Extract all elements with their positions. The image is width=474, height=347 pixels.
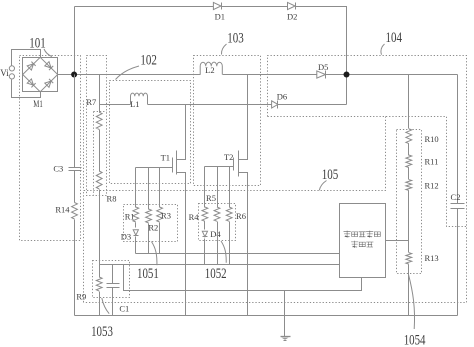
wire D1 to D2 xyxy=(222,6,288,8)
main wire node to L2 xyxy=(75,74,201,76)
resistor R2 with wires xyxy=(148,168,150,210)
dashed box around R7/R8 (inner) xyxy=(94,112,107,196)
resistor R1 with top wire xyxy=(135,168,137,208)
resistor R11 xyxy=(406,155,412,168)
wire L1 tap xyxy=(100,104,131,106)
svg-text:D5: D5 xyxy=(318,62,328,72)
resistor R14 xyxy=(72,203,78,220)
resistor R8 xyxy=(96,171,102,189)
resistor R5 with wires xyxy=(217,167,219,208)
svg-text:D3: D3 xyxy=(121,232,131,242)
inductor L1 xyxy=(131,93,148,104)
svg-text:R4: R4 xyxy=(189,212,200,222)
diode D4 xyxy=(204,222,206,230)
wire D3 to pin wire xyxy=(135,237,137,254)
dashed divider inside box 104 (C2 output cell) xyxy=(268,117,467,227)
junction dot at output node xyxy=(344,72,350,78)
chip input wire from R7/R8 divider xyxy=(100,190,340,265)
bridge diode NE xyxy=(45,62,51,68)
svg-text:R10: R10 xyxy=(425,134,439,144)
svg-text:R12: R12 xyxy=(425,181,439,191)
chip input wire from D3 node xyxy=(136,253,340,255)
output rail right side top xyxy=(457,75,459,204)
wire bridge output to node xyxy=(58,74,75,76)
wire D2 to output node xyxy=(296,7,347,105)
chip output wire to divider xyxy=(386,240,409,242)
T2 gate wire xyxy=(205,166,234,168)
svg-text:C1: C1 xyxy=(119,304,129,314)
resistor R4 with top wire xyxy=(204,167,206,208)
transistor T2 channel bar xyxy=(238,151,240,177)
ground stem xyxy=(284,291,286,337)
source Vi terminals xyxy=(9,66,14,71)
wire R12 to chip node xyxy=(408,191,410,241)
dashed box 1051 (T1 gate network) xyxy=(124,205,178,242)
T2 source connection down to rail xyxy=(239,173,248,316)
svg-text:R13: R13 xyxy=(425,253,439,263)
wire node up to bypass rail xyxy=(74,7,76,75)
wire D5 to output corner xyxy=(326,74,458,76)
wire L1 to D6 node xyxy=(148,104,272,106)
resistor R6 with wires xyxy=(229,167,231,208)
wire R8 down to pin wire xyxy=(99,190,101,265)
transistor T1 channel bar xyxy=(176,151,178,175)
wire R7 to R8 xyxy=(99,130,101,172)
svg-text:1051: 1051 xyxy=(137,266,159,282)
dashed box around R7/R8 sense divider (outer) xyxy=(87,56,107,196)
svg-text:Vi: Vi xyxy=(0,68,9,78)
wire divider node down to chip bottom wire xyxy=(124,265,362,291)
wire R14 to bottom rail xyxy=(74,220,76,316)
diode D3 xyxy=(135,223,137,228)
output rail right side bottom xyxy=(457,209,459,316)
svg-text:M1: M1 xyxy=(33,100,43,110)
svg-text:T2: T2 xyxy=(224,152,233,162)
svg-text:D4: D4 xyxy=(210,229,221,239)
dashed box 1053 (R9/C1 network) xyxy=(93,261,130,298)
transistor T1 gate bar xyxy=(172,158,174,173)
bridge diode NW xyxy=(27,64,33,70)
svg-text:D2: D2 xyxy=(287,12,297,22)
wire D4 to pin wire xyxy=(204,239,206,265)
wire D6 to output node xyxy=(278,104,347,106)
svg-text:R8: R8 xyxy=(107,194,117,204)
wire main rail down to R10 xyxy=(408,75,410,129)
resistor R12 xyxy=(406,180,412,191)
wire R11 to R12 xyxy=(408,168,410,180)
resistor R9 xyxy=(99,265,101,278)
svg-text:R11: R11 xyxy=(425,157,439,167)
wire Vi top to bridge AC1 xyxy=(12,50,41,66)
capacitor C2 xyxy=(451,203,465,205)
wire C3 to R14 xyxy=(74,171,76,203)
svg-text:101: 101 xyxy=(29,35,46,51)
left rail node down to C3 xyxy=(74,75,76,168)
T1 source connection down to rail xyxy=(177,173,186,316)
capacitor C3 xyxy=(69,167,82,169)
dashed box 102 (first boost leg) xyxy=(110,81,191,184)
resistor R10 xyxy=(406,129,412,144)
T1 gate wire xyxy=(136,167,173,169)
dashed box 1054 inner (feedback divider) xyxy=(397,130,422,274)
svg-text:R7: R7 xyxy=(86,97,96,107)
svg-text:R5: R5 xyxy=(206,193,216,203)
svg-text:105: 105 xyxy=(322,167,339,183)
bridge diode SE xyxy=(45,81,51,87)
svg-text:104: 104 xyxy=(386,30,403,46)
svg-text:L1: L1 xyxy=(130,99,139,109)
dashed box 1052 (T2 gate network) xyxy=(199,204,236,241)
T1 drain connection xyxy=(177,105,186,160)
svg-text:R2: R2 xyxy=(148,223,158,233)
svg-text:R9: R9 xyxy=(76,292,86,302)
svg-text:R1: R1 xyxy=(125,212,135,222)
wire Vi bottom to bridge AC2 xyxy=(12,80,41,98)
node dot after bridge xyxy=(71,72,77,78)
wire main rail down to R7 tap xyxy=(99,75,101,113)
bridge rectifier M1 box xyxy=(23,58,58,92)
diode D2 xyxy=(288,2,296,9)
svg-text:T1: T1 xyxy=(161,152,170,162)
svg-text:103: 103 xyxy=(227,30,244,46)
dashed box 105 (control stage) xyxy=(84,117,386,303)
svg-text:102: 102 xyxy=(140,53,157,69)
diode D5 xyxy=(317,71,326,78)
dashed vertical left of box 105 upper part xyxy=(83,101,85,191)
capacitor C1 xyxy=(112,265,114,284)
wire L2 to D5 xyxy=(223,74,317,76)
bottom return rail xyxy=(75,315,458,317)
wire R10 to R11 xyxy=(408,144,410,156)
bridge diamond xyxy=(23,57,58,92)
dashed box 101 (rectifier stage) xyxy=(20,56,81,241)
dashed box 104 (output stage) xyxy=(84,56,467,303)
svg-text:1054: 1054 xyxy=(404,333,426,347)
bypass rail top xyxy=(75,6,214,8)
inductor L2 xyxy=(200,62,222,74)
svg-text:D1: D1 xyxy=(215,12,225,22)
svg-text:R14: R14 xyxy=(55,205,70,215)
bridge diode SW xyxy=(27,79,33,85)
svg-text:1053: 1053 xyxy=(91,324,113,340)
svg-text:C2: C2 xyxy=(451,192,461,202)
svg-text:R3: R3 xyxy=(161,211,171,221)
PFC controller chip U1 box xyxy=(340,204,386,278)
dashed box 103 (second boost leg) xyxy=(194,56,261,186)
T2 drain connection up to main rail xyxy=(239,75,248,160)
resistor R3 with wires xyxy=(159,168,161,208)
svg-text:L2: L2 xyxy=(205,65,214,75)
svg-text:1052: 1052 xyxy=(205,266,227,282)
transistor T2 gate bar xyxy=(233,158,235,171)
diode D6 xyxy=(272,101,278,108)
svg-text:D6: D6 xyxy=(277,91,287,101)
resistor R7 xyxy=(96,112,102,129)
diode D1 xyxy=(213,2,221,9)
svg-text:C3: C3 xyxy=(53,164,63,174)
svg-text:R6: R6 xyxy=(236,211,246,221)
ground symbol xyxy=(281,336,291,338)
resistor R13 with wires xyxy=(408,241,410,253)
